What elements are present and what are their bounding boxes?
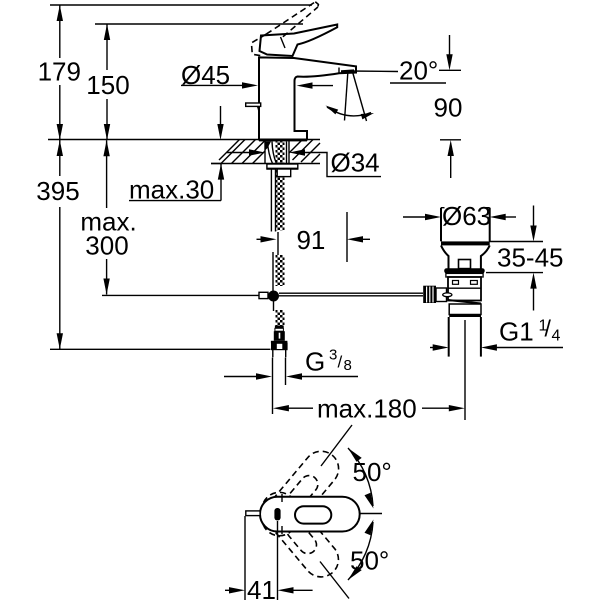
svg-text:300: 300 [85,231,128,261]
svg-text:150: 150 [86,70,129,100]
svg-text:3: 3 [329,347,337,364]
svg-text:Ø63: Ø63 [442,201,491,231]
svg-text:90: 90 [434,93,463,123]
svg-text:179: 179 [38,57,81,87]
svg-text:91: 91 [296,225,325,255]
svg-text:G1: G1 [499,316,534,346]
svg-text:G: G [305,347,325,377]
svg-text:8: 8 [344,357,352,374]
svg-text:395: 395 [36,176,79,206]
svg-text:50°: 50° [350,546,389,576]
svg-text:max.30: max.30 [129,175,214,205]
svg-text:4: 4 [552,327,561,344]
svg-text:50°: 50° [353,457,392,487]
svg-text:41: 41 [247,575,276,600]
svg-text:/: / [545,316,552,342]
svg-text:35-45: 35-45 [497,243,564,273]
svg-text:Ø34: Ø34 [331,148,380,178]
svg-text:max.180: max.180 [317,394,417,424]
svg-text:20°: 20° [399,56,438,86]
svg-text:/: / [338,353,343,372]
